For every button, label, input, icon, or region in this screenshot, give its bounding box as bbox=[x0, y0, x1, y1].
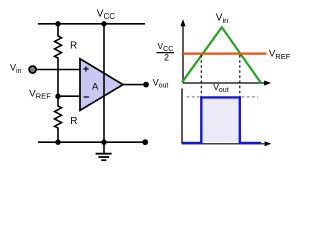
svg-text:R: R bbox=[70, 116, 77, 127]
svg-text:A: A bbox=[92, 82, 99, 93]
svg-text:R: R bbox=[70, 41, 77, 52]
svg-text:2: 2 bbox=[164, 52, 169, 62]
